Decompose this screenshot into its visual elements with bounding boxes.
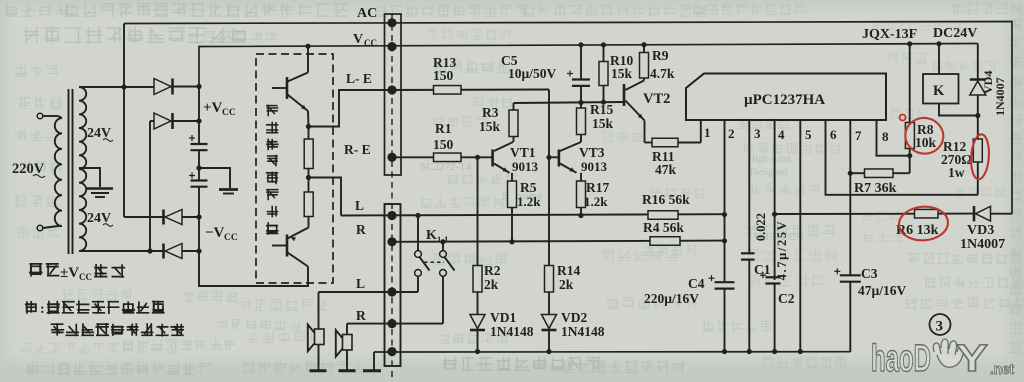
svg-text:R5: R5 <box>520 180 537 195</box>
svg-text:1N4148: 1N4148 <box>561 324 605 339</box>
junction dot R7/R8/pin8 <box>907 153 912 158</box>
diode rectifier D1 (+) <box>154 79 171 95</box>
wire bias line (R3/C5/R15/R10/VT2 base) <box>514 102 625 103</box>
junction dot pin5/bus <box>798 349 803 354</box>
diode rectifier D4 (-) <box>162 244 165 259</box>
junction dot pin4 node <box>772 212 777 217</box>
svg-text:3: 3 <box>936 319 944 335</box>
svg-text:R- E: R- E <box>344 142 371 157</box>
connector pin AC <box>387 18 396 27</box>
junction dot VD1/ground bus <box>475 349 480 354</box>
resistor R3 <box>509 110 518 137</box>
svg-text:1N4148: 1N4148 <box>490 324 534 339</box>
wire AC rail <box>124 22 1012 214</box>
junction dot C2/bus <box>772 349 777 354</box>
transistor output PNP lower <box>286 235 289 257</box>
svg-text::: : <box>40 302 45 317</box>
svg-text:Designed: Designed <box>750 167 788 178</box>
IC pin 8 lead <box>877 120 910 156</box>
svg-text:JQX-13F: JQX-13F <box>862 27 917 42</box>
svg-text:µPC1237HA: µPC1237HA <box>744 92 825 108</box>
note text line 2 左声道功放接法相同 <box>51 323 64 336</box>
IC pin 7 lead <box>849 120 851 275</box>
svg-text:1N4007: 1N4007 <box>960 237 1005 252</box>
svg-text:220V: 220V <box>12 161 45 177</box>
filter capacitor upper (+Vcc) <box>191 143 208 145</box>
svg-text:1.2k: 1.2k <box>517 194 541 209</box>
dashed box left channel output stage <box>256 54 333 283</box>
transformer center tap wire and ground <box>79 168 100 187</box>
svg-text:47µ/16V: 47µ/16V <box>858 283 907 298</box>
svg-text:High-band: High-band <box>748 154 791 165</box>
svg-text:Y: Y <box>956 338 988 380</box>
svg-text:0.022: 0.022 <box>754 213 768 241</box>
red pen ellipse around R6 <box>898 205 949 242</box>
IC pin 2 lead <box>724 120 726 282</box>
svg-text:VT3: VT3 <box>579 145 605 160</box>
wire Vcc +24V rail <box>199 44 978 87</box>
svg-text:24V: 24V <box>87 126 111 141</box>
svg-text:15k: 15k <box>611 66 633 81</box>
transistor VT1 9013 <box>491 150 494 167</box>
svg-text:7: 7 <box>855 128 862 143</box>
connector pin L (amp out) <box>387 211 396 220</box>
wire pin4 net to VD3 <box>775 213 974 215</box>
transformer secondary winding 2x24V <box>79 87 86 251</box>
wire -Vcc feed to output stage <box>199 251 308 286</box>
junction dot D4 anode <box>196 248 201 253</box>
connector pin R (amp out) <box>387 237 396 246</box>
svg-text:R4 56k: R4 56k <box>643 220 684 235</box>
IC pin 1 lead <box>700 120 702 143</box>
wire output node to L net <box>309 178 342 216</box>
ground symbol bus <box>373 352 375 370</box>
junction dot C5/bias line <box>578 100 583 105</box>
svg-text:2k: 2k <box>559 277 574 292</box>
svg-text:4.7k: 4.7k <box>650 66 675 81</box>
ground at filter midpoint <box>199 168 230 188</box>
diode VD3 1N4007 <box>973 206 976 221</box>
svg-text:L: L <box>355 198 364 213</box>
junction dot R10/bias <box>601 100 606 105</box>
svg-text:SC2272-T4: SC2272-T4 <box>420 161 472 173</box>
junction dot C1/bus <box>747 349 752 354</box>
svg-text:R1: R1 <box>435 121 452 136</box>
wire emitter to L-E tap <box>307 111 310 127</box>
resistor R2 <box>477 157 479 265</box>
capacitor C3 47u/16V <box>840 274 861 276</box>
svg-text:3: 3 <box>754 126 761 141</box>
svg-text:C4: C4 <box>688 276 705 291</box>
svg-text:R2: R2 <box>484 263 501 278</box>
junction dot output node <box>306 175 311 180</box>
svg-text:VT2: VT2 <box>643 91 670 107</box>
svg-text:47k: 47k <box>655 162 677 177</box>
svg-text:VD1: VD1 <box>490 310 516 325</box>
wire collector to Vcc rail <box>307 46 309 72</box>
capacitor C1 0.022 <box>741 252 755 254</box>
connector pin R (speaker) <box>387 319 396 328</box>
svg-text:2: 2 <box>728 126 735 141</box>
junction dot R5/R net <box>509 239 514 244</box>
connector pin L-E <box>387 85 396 94</box>
capacitor C2 4.7u/25V <box>766 276 781 278</box>
wire R5 to R net <box>511 208 513 242</box>
svg-text:R17: R17 <box>586 180 609 195</box>
resistor R8 <box>909 44 911 123</box>
resistor R13 <box>434 86 462 95</box>
svg-text:VT1: VT1 <box>510 145 536 160</box>
svg-text:V: V <box>353 32 363 47</box>
capacitor C4 220u/16V <box>715 281 735 283</box>
connector strip lower <box>385 204 401 366</box>
junction dot R7/pin7 <box>848 171 853 176</box>
svg-text:9013: 9013 <box>512 159 539 174</box>
wire L-E to VT3 base column <box>548 90 550 266</box>
svg-text:4.7µ/25V: 4.7µ/25V <box>775 220 789 281</box>
red pen small loop <box>900 115 906 121</box>
IC pin 5 lead <box>799 120 801 352</box>
svg-text:R: R <box>356 308 366 323</box>
transformer primary winding <box>55 118 62 226</box>
resistor R4 <box>650 237 680 246</box>
resistor R6 13k <box>915 209 939 218</box>
svg-text:±V: ±V <box>60 265 79 281</box>
op-amp IC U1 uPC1237HA <box>686 74 886 121</box>
connector pin R-E <box>387 153 396 162</box>
svg-text:2k: 2k <box>484 277 499 292</box>
note text line 1 注:右声道功放接法与 <box>25 301 37 314</box>
resistor R11 <box>644 121 646 143</box>
ground bus wire <box>374 351 850 353</box>
svg-text:−V: −V <box>205 225 225 241</box>
svg-text:K: K <box>933 83 945 99</box>
filter capacitor lower (-Vcc) <box>191 179 208 181</box>
vertical label 左声道功放末级管 <box>266 105 278 117</box>
junction dot R10/Vcc <box>601 42 606 47</box>
wire R17 to L net <box>580 208 582 216</box>
junction dot emitter node <box>306 124 311 129</box>
diode VD4 1N4007 (flyback) <box>977 44 979 80</box>
svg-text:10k: 10k <box>915 135 937 150</box>
junction dot D3 anode <box>196 214 201 219</box>
svg-text:+V: +V <box>203 100 223 116</box>
+Vcc / -Vcc rail with filter capacitors <box>198 87 200 145</box>
junction dot winding bottom / D2 column <box>147 248 152 253</box>
svg-text:CC: CC <box>79 272 92 282</box>
IC pin 4 lead <box>774 120 776 280</box>
junction dot VT3 base tap <box>546 155 551 160</box>
junction dot C5/Vcc <box>578 42 583 47</box>
svg-text:R6 13k: R6 13k <box>896 223 939 238</box>
svg-text:1w: 1w <box>948 165 965 180</box>
resistor R10 <box>603 45 605 62</box>
diode rectifier D3 (-) <box>124 216 163 218</box>
IC pin 3 lead <box>748 120 750 253</box>
red pen ellipse around R12 <box>970 134 991 180</box>
svg-text:K: K <box>426 228 437 243</box>
junction dot collector/Vcc <box>305 44 310 49</box>
transistor VT3 9013 <box>558 150 561 167</box>
transformer primary terminals 220V <box>37 113 43 119</box>
svg-text:R15: R15 <box>590 102 613 117</box>
junction dot filter midpoint <box>196 165 201 170</box>
resistor R15 <box>580 103 582 108</box>
watermark haoDIY.net <box>871 338 1014 380</box>
svg-text:8: 8 <box>882 129 889 144</box>
label PSU 功放±Vcc电源 <box>29 263 43 277</box>
emitter resistor upper (output stage) <box>308 127 310 140</box>
ground speaker R <box>339 369 356 372</box>
junction dot D1 cathode on +Vcc rail <box>196 84 201 89</box>
wire R10 to bias line <box>603 86 605 103</box>
connector dashed centerline <box>391 14 393 378</box>
resistor R7 <box>865 169 894 178</box>
emitter resistor lower (output stage) <box>304 192 313 217</box>
svg-text:L- E: L- E <box>346 71 372 86</box>
diode rectifier D2 (+) <box>150 120 154 122</box>
svg-text:VD2: VD2 <box>561 310 587 325</box>
svg-text:R7 36k: R7 36k <box>854 181 897 196</box>
junction dot D2 cathode <box>196 118 201 123</box>
svg-text:haoD: haoD <box>871 338 931 380</box>
wire L speaker net <box>319 291 419 293</box>
connector pin ground <box>387 347 396 356</box>
junction dots pin2 node <box>722 212 727 217</box>
svg-text:10µ/50V: 10µ/50V <box>508 66 557 81</box>
svg-text:1.2k: 1.2k <box>584 194 608 209</box>
junction dot R9/Vcc <box>641 42 646 47</box>
svg-text:DC24V: DC24V <box>933 26 977 41</box>
IC pin 6 lead (relay drive) <box>826 120 978 195</box>
svg-text:AC: AC <box>357 6 377 21</box>
wire R net <box>392 241 725 242</box>
connector strip upper <box>385 14 402 175</box>
svg-text:CC: CC <box>364 38 377 48</box>
wire secondary bottom end <box>79 250 163 252</box>
wire secondary top to rectifier and AC column <box>79 86 154 88</box>
svg-text:150: 150 <box>433 137 454 152</box>
junction dot VD2/ground bus <box>546 349 551 354</box>
resistor R14 <box>545 266 554 293</box>
svg-text:4: 4 <box>778 127 785 142</box>
junction dot R17/L net <box>578 213 583 218</box>
diode VD2 1N4148 <box>548 292 550 315</box>
resistor R1 <box>434 153 462 162</box>
svg-text:CC: CC <box>222 108 236 118</box>
svg-text:R3: R3 <box>482 105 499 120</box>
svg-text:.net: .net <box>990 361 1014 378</box>
transistor VT2 <box>623 84 626 106</box>
svg-text:9013: 9013 <box>581 159 608 174</box>
wire R-E net <box>392 156 492 158</box>
svg-text:1: 1 <box>704 125 711 140</box>
connector pin Vcc <box>387 42 396 51</box>
wire L net (amp output to pin2 node) <box>341 214 725 215</box>
svg-text:1N4007: 1N4007 <box>993 77 1007 116</box>
svg-text:R14: R14 <box>557 263 580 278</box>
junction dot R-E / R2 column <box>475 155 480 160</box>
svg-text:C3: C3 <box>861 266 878 281</box>
svg-text:15k: 15k <box>479 119 501 134</box>
svg-text:150: 150 <box>433 68 454 83</box>
relay coil K JQX-13F <box>923 74 959 104</box>
speaker right channel <box>346 324 348 370</box>
svg-text:L: L <box>356 276 365 291</box>
svg-text:R9: R9 <box>652 48 669 63</box>
svg-text:220µ/16V: 220µ/16V <box>644 291 699 306</box>
resistor R9 <box>643 45 645 53</box>
resistor R5 <box>511 173 513 181</box>
resistor R17 <box>580 173 582 181</box>
svg-text:VD3: VD3 <box>967 223 994 238</box>
svg-text:CC: CC <box>224 233 238 243</box>
svg-text:5: 5 <box>805 127 812 142</box>
wire secondary bottom to D2 anode <box>149 121 151 251</box>
resistor R16 <box>648 211 678 220</box>
red pen circle around R8 <box>902 115 946 157</box>
transistor output NPN upper <box>286 77 289 99</box>
speaker left channel <box>318 292 320 370</box>
figure number 3 circled <box>930 314 951 335</box>
wire R speaker net <box>347 323 443 325</box>
capacitor C5 10u/50V <box>580 45 582 80</box>
svg-text:C2: C2 <box>778 291 795 306</box>
dashed box power supply unit <box>10 55 243 282</box>
svg-text:24V: 24V <box>87 211 111 226</box>
svg-text:6: 6 <box>830 127 837 142</box>
wire R3 top to bias line <box>513 103 515 110</box>
ground speaker L <box>310 369 327 372</box>
junction dot R8/Vcc <box>907 41 912 46</box>
transformer core <box>68 89 70 254</box>
junction dot K/VD4/R12 <box>975 113 980 118</box>
diode VD1 1N4148 <box>477 292 479 315</box>
junction dot secondary top / AC column <box>121 84 126 89</box>
svg-text:15k: 15k <box>592 116 614 131</box>
svg-text:R: R <box>356 222 366 237</box>
svg-text:R16 56k: R16 56k <box>642 192 690 207</box>
resistor R12 270ohm 1w <box>973 139 982 162</box>
connector pin L (speaker) <box>387 287 396 296</box>
wire L-E net <box>388 89 549 92</box>
